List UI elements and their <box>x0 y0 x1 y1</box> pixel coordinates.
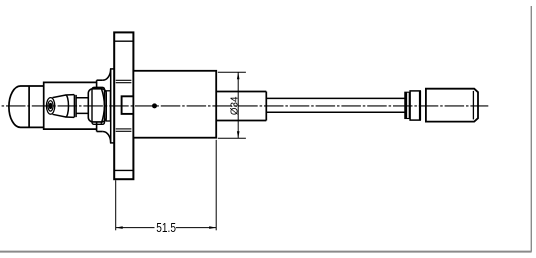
dimension Ø34 upper arrowhead <box>237 72 240 79</box>
dimension 51.5 left arrowhead <box>116 226 123 229</box>
nozzle tip face circles <box>46 98 54 115</box>
dimension 51.5 <box>116 140 217 231</box>
dimension Ø34 <box>218 72 246 138</box>
shaft section 1 <box>216 92 266 121</box>
flange bell (trumpet) <box>97 69 111 143</box>
svg-text:51.5: 51.5 <box>156 221 176 235</box>
bell end disc <box>111 69 115 143</box>
main body can <box>133 71 216 138</box>
flange inner top line <box>114 40 133 42</box>
connector chamfer line <box>472 91 474 120</box>
flange bore lines <box>116 80 132 131</box>
flange notch square <box>122 96 134 114</box>
hex nut <box>88 87 106 124</box>
ferrule washer <box>405 92 410 118</box>
dimension 51.5 right arrowhead <box>209 226 216 229</box>
frame right border <box>530 6 532 252</box>
bulb housing <box>44 82 97 129</box>
flange plate <box>114 32 133 179</box>
dimension Ø34 lower arrowhead <box>237 131 240 138</box>
nozzle cone <box>53 95 89 118</box>
weep hole dot <box>152 103 157 108</box>
small cylinder <box>410 91 420 120</box>
long thin tube <box>266 98 405 112</box>
connector body <box>426 89 478 122</box>
flange inner bottom line <box>114 169 133 171</box>
washer behind nut <box>106 91 110 121</box>
frame bottom border <box>0 251 532 253</box>
svg-text:Ø34: Ø34 <box>229 96 240 115</box>
dome cap (left bulb) <box>9 86 44 127</box>
dimension 51.5 value label <box>156 221 176 235</box>
centerline <box>0 105 488 107</box>
